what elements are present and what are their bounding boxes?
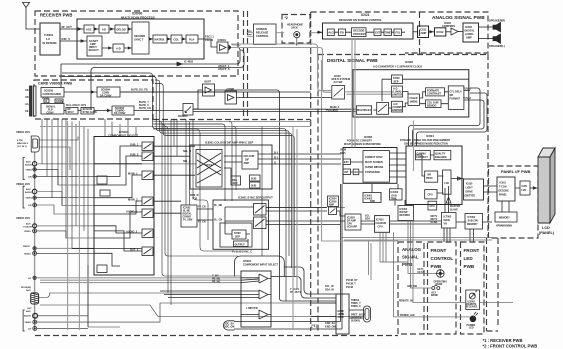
svg-text:R: R bbox=[46, 100, 48, 103]
svg-text:ANALOG SIGNAL PWB: ANALOG SIGNAL PWB bbox=[432, 15, 485, 21]
svg-text:MULTI-SCREEN SUPER IMPOSE: MULTI-SCREEN SUPER IMPOSE bbox=[344, 143, 381, 146]
buffer out arrowhead bbox=[228, 46, 231, 50]
bus x174 bbox=[173, 119, 175, 146]
svg-text:CONV: CONV bbox=[56, 100, 64, 103]
front control PWB outline bbox=[428, 242, 457, 334]
wire IC006 outputs bbox=[464, 90, 470, 100]
switch sw3 bbox=[142, 171, 153, 180]
jack column gray bus bbox=[34, 152, 36, 330]
block cpu bbox=[425, 190, 437, 199]
svg-text:SUB: SUB bbox=[251, 185, 256, 188]
block PLA bbox=[186, 35, 198, 43]
svg-text:SEP: SEP bbox=[233, 182, 238, 185]
wire band 124 bbox=[153, 124, 225, 201]
svg-text:CE: CE bbox=[25, 110, 29, 113]
block sound control bbox=[254, 24, 277, 45]
svg-text:IF/IF_S: IF/IF_S bbox=[62, 37, 71, 41]
svg-text:COMPRES: COMPRES bbox=[442, 24, 455, 28]
key buttons symbol bbox=[432, 287, 435, 290]
svg-text:YUV_0: YUV_0 bbox=[463, 88, 472, 91]
vertical bus x42 bbox=[41, 119, 43, 164]
antenna bbox=[23, 3, 41, 30]
tuner TU6001 bbox=[40, 23, 60, 55]
svg-text:*2: *2 bbox=[285, 16, 288, 20]
svg-text:GPS: GPS bbox=[247, 31, 252, 33]
gray PR wire bbox=[40, 282, 241, 284]
wires into t2 bbox=[160, 291, 259, 298]
svg-text:(PANEL): (PANEL) bbox=[539, 231, 555, 235]
switch box s2 bbox=[254, 217, 267, 229]
block sub1 bbox=[250, 175, 261, 181]
wire sound dsp up bbox=[372, 184, 398, 193]
block SC6003 compo DA conv bbox=[112, 106, 134, 115]
svg-text:LED: LED bbox=[464, 256, 474, 261]
svg-text:DL/L-CDL/C COV: DL/L-CDL/C COV bbox=[66, 104, 86, 107]
HDMI receptacle stadium bbox=[364, 306, 371, 322]
svg-text:AMP: AMP bbox=[466, 36, 472, 40]
card to select verticals bbox=[105, 119, 136, 137]
svg-text:BLPD_DU_FB: BLPD_DU_FB bbox=[131, 89, 148, 92]
svg-text:RF_OUT: RF_OUT bbox=[62, 25, 73, 29]
svg-text:AB: AB bbox=[25, 96, 29, 99]
svg-text:CB: CB bbox=[25, 89, 29, 92]
svg-text:SDA_IN: SDA_IN bbox=[325, 289, 334, 292]
svg-text:SUPER IMPOSE: SUPER IMPOSE bbox=[365, 166, 384, 169]
wire out to IC2001 bbox=[197, 209, 213, 220]
svg-text:AUDIO_1: AUDIO_1 bbox=[126, 210, 138, 214]
svg-text:MULTI SCAN PROCESS: MULTI SCAN PROCESS bbox=[121, 16, 155, 20]
block formate contrast bbox=[426, 88, 445, 96]
RF modulator coil bbox=[31, 293, 39, 304]
svg-text:DELOD: DELOD bbox=[117, 28, 126, 32]
svg-text:LED: LED bbox=[469, 328, 474, 330]
lcd panel front face bbox=[538, 157, 550, 223]
wire ic2004 in bbox=[266, 207, 345, 209]
wire headphone down bbox=[296, 38, 298, 46]
block A-D chroma bbox=[392, 101, 403, 112]
svg-text:IC012: IC012 bbox=[437, 30, 444, 34]
block NR process bbox=[425, 171, 438, 182]
switch box RGB/BV bbox=[183, 104, 193, 116]
block ALG bbox=[327, 29, 334, 36]
svg-text:4 PIN: 4 PIN bbox=[17, 139, 23, 142]
remote sensor box bbox=[466, 290, 480, 310]
svg-text:SUSNY): SUSNY) bbox=[351, 320, 360, 323]
svg-text:DECODE: DECODE bbox=[499, 190, 510, 193]
jack c2 bbox=[33, 168, 36, 171]
block SECOND SNR bbox=[132, 22, 149, 54]
svg-text:CONV: CONV bbox=[47, 112, 55, 115]
wire IC003 to speaker R bbox=[479, 26, 494, 28]
wire c7 right bbox=[37, 225, 94, 227]
svg-text:LCD: LCD bbox=[542, 226, 550, 230]
inner convert box bbox=[363, 151, 389, 183]
svg-text:KEY1: KEY1 bbox=[418, 269, 425, 271]
gray Y wire bbox=[36, 277, 241, 279]
wires cpu row bbox=[337, 193, 493, 225]
svg-text:EXT: EXT bbox=[344, 161, 349, 164]
svg-text:IC008: IC008 bbox=[364, 135, 372, 139]
wire IC6000 out to buffer IC6001 bbox=[204, 39, 217, 47]
svg-text:AUX: AUX bbox=[26, 161, 31, 164]
block sub2 bbox=[250, 182, 261, 188]
arrow to light drive bbox=[451, 177, 463, 180]
power LED symbol bbox=[470, 316, 476, 322]
bracket group1 bbox=[23, 158, 25, 180]
gray bus x297 bbox=[296, 129, 298, 290]
wire c14 right bbox=[37, 265, 88, 328]
block SCART CMP INPUT SELECT bbox=[87, 36, 102, 56]
wire comp out right bbox=[237, 97, 332, 99]
wire ic021 down bbox=[352, 39, 355, 148]
bracket group out bbox=[23, 310, 25, 331]
wire fan 1 bbox=[62, 73, 286, 301]
svg-text:LVD: LVD bbox=[522, 189, 527, 192]
svg-text:SYNTHESIZE: SYNTHESIZE bbox=[365, 171, 380, 174]
bus x168 bbox=[165, 127, 168, 294]
svg-text:PROCESS: PROCESS bbox=[353, 32, 366, 36]
svg-text:COL: COL bbox=[174, 38, 180, 42]
select box bbox=[241, 271, 271, 327]
wire out right bbox=[271, 267, 336, 298]
svg-text:JACK: JACK bbox=[338, 316, 345, 319]
svg-text:LR: LR bbox=[28, 329, 31, 331]
bundle chassis down bbox=[380, 232, 408, 262]
svg-text:MAIN_2: MAIN_2 bbox=[128, 198, 138, 202]
svg-text:LIGHT: LIGHT bbox=[466, 187, 474, 190]
svg-text:TEST/: TEST/ bbox=[42, 97, 49, 100]
svg-text:AUX: AUX bbox=[26, 223, 31, 226]
svg-text:AUDIO: AUDIO bbox=[465, 32, 473, 36]
jack c6 bbox=[33, 203, 37, 207]
vertical bus x58 bbox=[57, 119, 59, 185]
svg-text:SEP: SEP bbox=[235, 236, 240, 239]
bus down left of hdmi bbox=[369, 240, 372, 280]
svg-text:VIDEO JKS: VIDEO JKS bbox=[16, 130, 30, 134]
svg-text:Y/CB/CR: Y/CB/CR bbox=[23, 227, 32, 229]
svg-text:TMDS_C: TMDS_C bbox=[351, 305, 361, 308]
wire matrix to amp bbox=[224, 156, 242, 176]
jack c8 bbox=[33, 229, 37, 233]
digital signal PWB outline bbox=[311, 12, 498, 331]
block multiplex bbox=[356, 106, 371, 115]
IC4003 box bbox=[390, 189, 403, 200]
wire c2 right bbox=[36, 169, 94, 185]
svg-text:MEMORY: MEMORY bbox=[467, 223, 478, 226]
gray buses mid bbox=[293, 60, 322, 330]
transistor on bus bbox=[444, 186, 474, 242]
card connector bar bbox=[30, 86, 33, 116]
inner box bbox=[220, 223, 252, 247]
rotary encoder symbol bbox=[437, 270, 445, 278]
vertical bus x76 bbox=[75, 124, 77, 226]
switch sw1 bbox=[142, 142, 153, 151]
vertical bus x47 bbox=[46, 119, 48, 176]
block FSLJ bbox=[394, 29, 402, 36]
svg-text:FORMAT CONV: FORMAT CONV bbox=[365, 156, 383, 159]
svg-text:MODE: MODE bbox=[431, 295, 438, 297]
svg-text:DEMOD: DEMOD bbox=[427, 105, 437, 108]
svg-text:REMOTE_IN: REMOTE_IN bbox=[399, 301, 413, 303]
block sync sep bbox=[232, 230, 246, 239]
wires into hdmi left bbox=[311, 303, 336, 317]
svg-text:IC2002: IC2002 bbox=[183, 208, 191, 210]
block output bbox=[234, 241, 249, 247]
svg-text:PR_IN1: PR_IN1 bbox=[212, 281, 221, 284]
svg-text:LVD: LVD bbox=[444, 182, 449, 185]
wire SECOND to MATRIX bbox=[149, 38, 153, 40]
wire c9 right bbox=[36, 247, 94, 249]
bus x162 bbox=[159, 122, 241, 277]
wire osd to amp bbox=[413, 31, 418, 33]
svg-text:AMP: AMP bbox=[421, 31, 427, 35]
svg-text:LR: LR bbox=[28, 278, 31, 280]
svg-text:SPLY: SPLY bbox=[68, 111, 75, 114]
wire DA out right bbox=[120, 91, 311, 93]
svg-text:(Y/C IN 1): (Y/C IN 1) bbox=[17, 146, 27, 148]
svg-text:VIDEO: VIDEO bbox=[24, 254, 31, 256]
gray bus x67.6 bbox=[67, 121, 69, 330]
svg-text:AUDIO_2: AUDIO_2 bbox=[126, 230, 138, 234]
svg-text:P-L SEM: P-L SEM bbox=[183, 220, 192, 222]
block colour dif amp bbox=[242, 151, 258, 169]
speaker R symbol bbox=[493, 23, 501, 32]
svg-text:RECEIVER PWB: RECEIVER PWB bbox=[40, 13, 72, 18]
svg-text:DA: DA bbox=[355, 171, 359, 174]
block signal FLP conv bbox=[41, 104, 64, 115]
block del sep bbox=[231, 176, 241, 185]
IC2003 box bbox=[345, 214, 361, 230]
vertical bus x52 bbox=[51, 119, 53, 198]
inner mesh wires bbox=[72, 146, 142, 266]
block IC012 bbox=[435, 28, 446, 36]
feedback loop 2 bbox=[413, 100, 485, 146]
block A-D luma bbox=[392, 86, 403, 97]
svg-text:PB/PR: PB/PR bbox=[23, 246, 30, 248]
switch box s1 bbox=[254, 204, 267, 216]
IC001 outer box bbox=[406, 146, 462, 205]
svg-text:IC2001 SYNC SEP/OUTPUT: IC2001 SYNC SEP/OUTPUT bbox=[238, 196, 273, 200]
svg-text:VIDEO: VIDEO bbox=[26, 170, 33, 172]
block colour demod bbox=[426, 100, 441, 108]
jack c14 bbox=[33, 326, 37, 330]
svg-text:SUB: SUB bbox=[251, 178, 256, 181]
svg-text:B-Y: B-Y bbox=[274, 152, 279, 155]
IC6000 multi scan process outer box bbox=[77, 19, 204, 59]
svg-text:IC003: IC003 bbox=[465, 25, 472, 29]
switch t1 bbox=[259, 274, 271, 283]
svg-text:KEY2: KEY2 bbox=[418, 272, 425, 274]
svg-text:AUDIO: AUDIO bbox=[25, 164, 32, 167]
bus x177 bbox=[176, 119, 178, 156]
block MATRIX bbox=[153, 35, 167, 43]
svg-text:FV/BUS/SYNC_C: FV/BUS/SYNC_C bbox=[232, 251, 252, 254]
svg-text:RF/JK(IN): RF/JK(IN) bbox=[21, 287, 31, 289]
svg-text:T-CON: T-CON bbox=[499, 186, 507, 189]
wire SCART to A-D bbox=[102, 47, 113, 49]
svg-text:A-D: A-D bbox=[116, 47, 121, 51]
svg-text:LIMITER: LIMITER bbox=[392, 94, 402, 97]
wire c1 right bbox=[37, 163, 196, 165]
svg-text:SUB_1: SUB_1 bbox=[130, 143, 139, 147]
svg-text:AA: AA bbox=[25, 103, 29, 106]
switch sw4 bbox=[142, 197, 153, 206]
svg-text:PWB: PWB bbox=[464, 264, 475, 269]
svg-text:AUDIO: AUDIO bbox=[24, 315, 31, 318]
block ctl delay nr format bbox=[448, 86, 464, 110]
jack c11 bbox=[33, 276, 36, 279]
jack c12 bbox=[33, 313, 38, 318]
svg-text:COMPONENT INPUT SELECT: COMPONENT INPUT SELECT bbox=[243, 264, 278, 267]
svg-text:IC8001 COLOUR DIF AMP 4PIN C S: IC8001 COLOUR DIF AMP 4PIN C SEP bbox=[205, 141, 253, 145]
svg-text:FIX: FIX bbox=[340, 30, 344, 34]
svg-text:DDC_OM: DDC_OM bbox=[224, 326, 234, 329]
block gamma correction bbox=[415, 151, 430, 160]
HDMI box bbox=[336, 294, 349, 334]
gray audio path to IC020 bbox=[231, 44, 392, 94]
svg-text:TV/AUDIO: TV/AUDIO bbox=[326, 110, 338, 113]
svg-text:SDA: SDA bbox=[365, 218, 370, 221]
svg-text:SCREEN: SCREEN bbox=[256, 27, 267, 31]
svg-text:AUX: AUX bbox=[26, 289, 31, 292]
svg-text:SL_NE: SL_NE bbox=[214, 204, 222, 207]
svg-text:IC001: IC001 bbox=[426, 134, 434, 138]
wire tuner IF bbox=[60, 40, 87, 42]
block comb filter mem bbox=[408, 94, 420, 106]
svg-text:FSC1.1: FSC1.1 bbox=[205, 35, 214, 39]
svg-text:DIGITAL SIGNAL PWB: DIGITAL SIGNAL PWB bbox=[327, 58, 378, 64]
boundary double dashed vertical right bbox=[247, 11, 249, 120]
wire PLA to edge bbox=[198, 38, 204, 40]
svg-text:VIDEO JKS: VIDEO JKS bbox=[16, 216, 30, 220]
boundary dashed horizontal y120 bbox=[153, 119, 311, 121]
svg-text:YUV_2: YUV_2 bbox=[463, 97, 472, 100]
svg-text:CPU: CPU bbox=[428, 194, 433, 197]
svg-text:FORMAT: FORMAT bbox=[450, 98, 461, 101]
svg-text:TIME: TIME bbox=[385, 30, 391, 34]
svg-text:TU6001: TU6001 bbox=[44, 33, 54, 37]
svg-text:FRONT: FRONT bbox=[464, 248, 480, 253]
block amp c bbox=[97, 265, 107, 273]
block quality enhance bbox=[434, 151, 451, 160]
svg-text:SPEAKER(R): SPEAKER(R) bbox=[489, 19, 505, 23]
switch sw2 bbox=[142, 152, 153, 161]
svg-text:MATRIX: MATRIX bbox=[155, 38, 165, 42]
IC2004 box bbox=[328, 196, 339, 207]
wire chain to IC011 bbox=[247, 33, 323, 37]
IC006 outer box bbox=[353, 70, 469, 117]
svg-text:SELECT: SELECT bbox=[89, 48, 100, 52]
wire key1 bbox=[408, 221, 437, 274]
bus x232 bbox=[229, 122, 232, 202]
svg-text:COMPONENT SELECT: COMPONENT SELECT bbox=[108, 133, 138, 137]
wire c10 right bbox=[37, 252, 94, 254]
wires ic008 bbox=[351, 153, 406, 177]
svg-text:DRIVE: DRIVE bbox=[466, 191, 474, 194]
bus x236 bbox=[233, 127, 236, 191]
block da bbox=[353, 169, 359, 175]
wire into t3 bbox=[241, 314, 259, 316]
block TIME bbox=[384, 29, 392, 36]
svg-text:IC006: IC006 bbox=[405, 60, 413, 64]
block EXT bbox=[374, 29, 381, 36]
feedback loop 1 bbox=[409, 88, 481, 146]
wire compo to switch bbox=[120, 92, 225, 111]
svg-text:FSC80: FSC80 bbox=[205, 38, 214, 42]
wire MATRIX to COL bbox=[167, 38, 171, 40]
svg-text:AUX: AUX bbox=[26, 310, 31, 313]
svg-text:EMITTER: EMITTER bbox=[465, 195, 476, 198]
svg-text:RECEIVER ON SCREEN CONTROL: RECEIVER ON SCREEN CONTROL bbox=[339, 18, 382, 22]
block NF SPLY bbox=[66, 108, 78, 115]
svg-text:MAIN_1: MAIN_1 bbox=[128, 172, 138, 176]
wire loop rounded bbox=[235, 256, 285, 277]
svg-text:AUDIO: AUDIO bbox=[25, 191, 32, 194]
block lvds tall bbox=[443, 170, 451, 194]
wire IC012 to buffer bbox=[446, 31, 451, 33]
svg-text:SCHARP: SCHARP bbox=[347, 226, 358, 229]
feedback loop 3 bbox=[417, 93, 488, 146]
wire c4 right bbox=[37, 192, 94, 206]
bracket group2 bbox=[23, 186, 25, 208]
svg-text:GND_OM: GND_OM bbox=[325, 326, 336, 329]
svg-text:R-Y: R-Y bbox=[274, 157, 279, 160]
wire IC5001 to matrix bbox=[154, 146, 195, 201]
wire ic901 to conn bbox=[515, 187, 538, 189]
wires inside bbox=[225, 207, 254, 241]
wire loopback second bbox=[91, 50, 244, 108]
svg-text:SYNC T: SYNC T bbox=[134, 38, 144, 42]
s-video connector bbox=[31, 136, 39, 152]
IC030 box bbox=[464, 179, 484, 200]
svg-text:SEL_B: SEL_B bbox=[183, 150, 191, 153]
svg-text:PVCM: PVCM bbox=[346, 286, 353, 289]
svg-text:IC011: IC011 bbox=[420, 28, 427, 32]
svg-text:VR: VR bbox=[444, 223, 448, 226]
wire reader to DA bbox=[64, 91, 97, 93]
svg-text:NETWRK: NETWRK bbox=[400, 214, 411, 217]
gray bus x79.4 bbox=[78, 121, 80, 330]
svg-text:PLA: PLA bbox=[189, 38, 194, 42]
svg-text:LIMITER: LIMITER bbox=[392, 109, 402, 112]
boundary double dashed vertical left bbox=[243, 11, 245, 120]
svg-text:OUT: OUT bbox=[27, 308, 32, 310]
jack c7 bbox=[33, 224, 37, 228]
front LED PWB outline bbox=[461, 242, 485, 334]
svg-text:SL-NE: SL-NE bbox=[183, 211, 190, 213]
block AGC bbox=[84, 25, 94, 33]
jack c4 bbox=[32, 189, 37, 194]
svg-text:JACK: JACK bbox=[291, 27, 298, 30]
svg-text:MINI DIN S: MINI DIN S bbox=[17, 143, 29, 145]
svg-text:CPU: CPU bbox=[378, 226, 383, 229]
svg-text:VIDEO: VIDEO bbox=[24, 231, 31, 233]
svg-text:L/R: L/R bbox=[28, 205, 32, 207]
svg-text:SEP: SEP bbox=[394, 80, 399, 83]
svg-text:PCM_W: PCM_W bbox=[190, 195, 199, 197]
wire key2 bbox=[411, 221, 432, 289]
svg-text:PB_OUT1: PB_OUT1 bbox=[290, 291, 302, 294]
switch box after multiplex bbox=[377, 102, 389, 114]
IC2002 box bbox=[181, 205, 197, 227]
switch sw5 bbox=[142, 209, 153, 218]
headphone jack circle bbox=[294, 31, 300, 37]
svg-text:RECEIVER: RECEIVER bbox=[466, 307, 478, 309]
analog area bottom dashed bbox=[35, 335, 398, 337]
svg-text:CONTROL: CONTROL bbox=[256, 34, 269, 38]
block DECODE PROCESS bbox=[352, 28, 367, 37]
bus x165 bbox=[162, 124, 238, 256]
